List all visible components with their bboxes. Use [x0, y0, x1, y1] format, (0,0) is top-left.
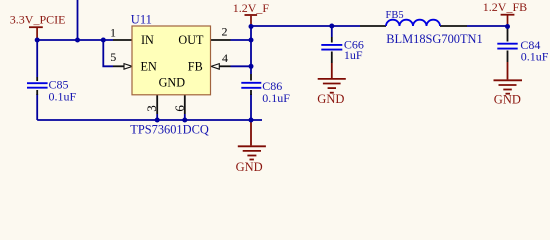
svg-text:IN: IN: [141, 33, 154, 47]
svg-text:1.2V_FB: 1.2V_FB: [483, 0, 527, 14]
svg-text:FB: FB: [188, 59, 203, 73]
svg-text:1.2V_F: 1.2V_F: [233, 1, 270, 15]
svg-text:GND: GND: [317, 92, 344, 106]
svg-text:OUT: OUT: [178, 33, 204, 47]
svg-text:TPS73601DCQ: TPS73601DCQ: [130, 123, 209, 137]
svg-text:4: 4: [222, 51, 228, 65]
svg-text:0.1uF: 0.1uF: [49, 89, 77, 103]
svg-text:GND: GND: [159, 75, 186, 89]
svg-text:U11: U11: [131, 12, 152, 26]
svg-text:EN: EN: [141, 59, 157, 73]
svg-text:1uF: 1uF: [344, 48, 363, 62]
svg-text:3.3V_PCIE: 3.3V_PCIE: [10, 12, 66, 26]
svg-text:BLM18SG700TN1: BLM18SG700TN1: [386, 32, 482, 46]
svg-text:2: 2: [222, 25, 228, 39]
svg-text:0.1uF: 0.1uF: [262, 91, 290, 105]
svg-text:GND: GND: [236, 160, 263, 174]
svg-text:1: 1: [110, 26, 116, 40]
svg-text:GND: GND: [494, 93, 521, 107]
svg-text:5: 5: [110, 50, 116, 64]
svg-text:3: 3: [144, 105, 159, 112]
svg-text:6: 6: [172, 105, 187, 112]
svg-text:0.1uF: 0.1uF: [521, 50, 549, 64]
svg-text:FB5: FB5: [386, 10, 404, 21]
